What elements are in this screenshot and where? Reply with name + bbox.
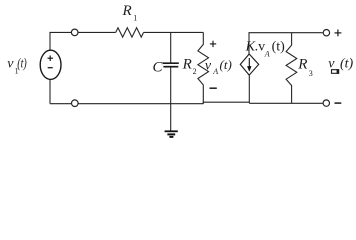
label vi(t) [7, 56, 27, 75]
resistor R3 [286, 33, 297, 104]
wire bottom rail right [249, 102, 322, 104]
wire top rail R1 to R2 corner [144, 31, 204, 33]
svg-text:C: C [153, 59, 164, 75]
wire bottom rail left [50, 103, 203, 105]
dependent source arrow [247, 58, 251, 71]
resistor R1 [116, 28, 144, 37]
ground bars [165, 131, 178, 137]
svg-text:(t): (t) [272, 39, 286, 54]
svg-text:3: 3 [309, 69, 313, 78]
svg-text:(t): (t) [340, 57, 354, 72]
terminal top-right [323, 30, 329, 36]
wire bottom rail middle (raised) [203, 102, 249, 104]
label K.vA(t) [245, 39, 286, 58]
label vo subscript box [332, 69, 340, 74]
svg-text:R: R [122, 3, 132, 19]
terminal bottom-right [323, 100, 329, 106]
source plus sign [48, 56, 54, 62]
capacitor C bottom lead [170, 67, 172, 103]
svg-text:(t): (t) [17, 56, 27, 71]
svg-text:(t): (t) [220, 57, 232, 72]
wire dep-source bottom lead [248, 75, 250, 102]
polarity plus of vo [335, 30, 342, 37]
dependent source U1 diamond [240, 54, 258, 75]
terminal top-left [71, 29, 78, 36]
capacitor C plates [163, 63, 179, 66]
label vo(t) [328, 57, 353, 72]
source minus sign [48, 67, 53, 69]
svg-text:1: 1 [133, 14, 137, 23]
svg-text:R: R [297, 56, 307, 72]
svg-text:v: v [205, 58, 212, 73]
ground stem [170, 104, 172, 131]
capacitor C top lead [170, 32, 172, 62]
terminal bottom-left [72, 100, 79, 107]
wire top-left from source to terminal [50, 32, 71, 50]
polarity plus of vA [210, 41, 216, 47]
svg-text:A: A [264, 50, 270, 59]
wire source bottom lead [49, 79, 51, 103]
wire top rail terminal to R1 [78, 31, 116, 33]
svg-text:v: v [7, 57, 14, 72]
polarity minus of vo [335, 102, 342, 104]
source V ellipse [40, 50, 61, 79]
label vA(t) of R2 [205, 57, 232, 76]
resistor R2 [198, 32, 209, 103]
wire dep-source top lead [249, 33, 323, 55]
svg-text:R: R [182, 57, 192, 73]
svg-text:2: 2 [193, 67, 197, 76]
polarity minus of vA [210, 87, 217, 89]
svg-text:.v: .v [255, 39, 266, 54]
svg-text:A: A [212, 67, 218, 76]
